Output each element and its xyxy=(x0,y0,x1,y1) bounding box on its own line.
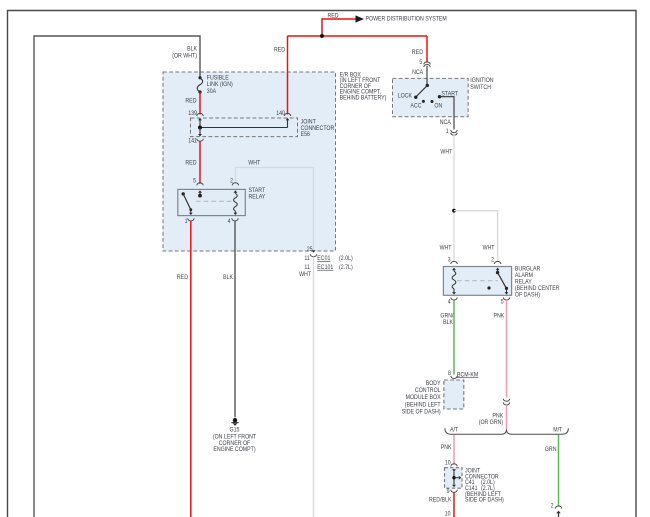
svg-text:RED/BLK: RED/BLK xyxy=(429,497,452,504)
start relay pin 4 xyxy=(228,218,239,225)
wire labels WHT at relay pins xyxy=(440,244,495,251)
joint connector C41 pin 10 xyxy=(445,460,457,467)
wire PNK burglar relay pin 5 down xyxy=(494,300,507,398)
wire RED bus drop to ignition switch pin 5 xyxy=(412,36,427,63)
joint connector C41 pin 9 xyxy=(447,488,458,495)
svg-text:ACC: ACC xyxy=(410,103,421,110)
svg-text:RED: RED xyxy=(274,47,285,54)
svg-text:1: 1 xyxy=(185,218,188,225)
svg-text:11: 11 xyxy=(304,264,310,271)
svg-text:OF DASH): OF DASH) xyxy=(515,291,540,298)
wire WHT branch to burglar alarm relay pin 2 xyxy=(454,211,498,263)
svg-text:30A: 30A xyxy=(207,88,217,95)
svg-text:(OR GRN): (OR GRN) xyxy=(479,419,504,426)
svg-text:(OR WHT): (OR WHT) xyxy=(172,52,197,59)
wire RED start relay pin 1 down to page bottom xyxy=(177,221,191,517)
svg-text:25: 25 xyxy=(307,246,313,253)
start relay mechanical dashed link xyxy=(196,200,233,202)
svg-text:WHT: WHT xyxy=(483,244,495,251)
svg-text:(BEHIND LEFT: (BEHIND LEFT xyxy=(405,401,441,408)
svg-text:PNK: PNK xyxy=(494,312,505,319)
brace split A/T and M/T xyxy=(445,426,568,434)
ignition switch pin 1 connector xyxy=(440,117,458,136)
ignition switch contacts and lever xyxy=(398,66,458,117)
wire BLK (OR WHT) battery feed: fusible link up, across, down left side xyxy=(34,36,200,517)
svg-text:BLK: BLK xyxy=(443,319,453,326)
svg-text:EC01: EC01 xyxy=(317,255,330,262)
burglar relay pin 4 xyxy=(448,297,457,305)
joint connector internal bus wire xyxy=(198,126,288,130)
svg-text:5: 5 xyxy=(501,299,504,306)
start relay coil xyxy=(234,192,238,215)
svg-text:5: 5 xyxy=(419,59,422,66)
wire PNK A/T branch xyxy=(441,435,454,465)
start relay pin 1 xyxy=(185,218,195,225)
wire GRN M/T branch xyxy=(545,435,559,507)
svg-text:1: 1 xyxy=(446,128,449,135)
burglar relay pin 2 xyxy=(491,256,501,274)
svg-text:NCA: NCA xyxy=(440,119,452,126)
svg-text:2: 2 xyxy=(491,256,494,263)
wire RED fusible link to pin 139 xyxy=(185,92,200,114)
body control module box (dashed) xyxy=(402,380,464,416)
svg-text:RED: RED xyxy=(177,274,188,281)
wire RED bus drop to joint connector pin 140 xyxy=(274,36,288,115)
clutch start switch stub arrow (cut at page edge) xyxy=(556,511,561,517)
wire WHT start relay pin 2 to E/R box pin 25 xyxy=(235,160,313,250)
svg-text:9: 9 xyxy=(447,488,450,495)
burglar relay mechanical dashed link xyxy=(457,280,498,282)
burglar relay pin 3 xyxy=(448,256,457,270)
svg-text:ENGINE COMPT): ENGINE COMPT) xyxy=(213,446,255,453)
svg-text:2: 2 xyxy=(551,503,554,510)
in-line connector on PNK wire xyxy=(503,399,509,405)
burglar relay pin 5 xyxy=(501,297,510,305)
svg-text:WHT: WHT xyxy=(440,244,452,251)
svg-text:140: 140 xyxy=(276,110,285,117)
start relay pin 5 xyxy=(193,178,203,198)
svg-text:M/T: M/T xyxy=(553,426,562,433)
svg-text:MODULE BOX: MODULE BOX xyxy=(406,394,442,401)
svg-text:A/T: A/T xyxy=(450,426,458,433)
start relay box xyxy=(178,187,266,216)
svg-text:WHT: WHT xyxy=(299,271,311,278)
start relay pin 2 xyxy=(230,178,239,193)
svg-text:POWER DISTRIBUTION SYSTEM: POWER DISTRIBUTION SYSTEM xyxy=(366,15,447,22)
E/R box pin 25 exit xyxy=(307,246,317,257)
arrow to POWER DISTRIBUTION SYSTEM xyxy=(356,15,447,22)
svg-text:WHT: WHT xyxy=(248,160,260,167)
svg-text:SIDE OF DASH): SIDE OF DASH) xyxy=(402,409,441,416)
BCM pin 8 connector, node BCM-KM xyxy=(448,370,478,378)
E/R box (engine compartment relay box, dashed) xyxy=(163,71,386,251)
svg-text:10: 10 xyxy=(445,511,451,517)
svg-text:(2.0L): (2.0L) xyxy=(339,255,353,262)
svg-text:GRN: GRN xyxy=(545,446,557,453)
svg-text:10: 10 xyxy=(445,460,451,467)
ground G15 xyxy=(213,418,256,453)
burglar alarm relay box xyxy=(443,265,559,298)
svg-text:SIDE OF DASH): SIDE OF DASH) xyxy=(465,497,504,504)
ignition switch pin 5 connector xyxy=(412,59,430,76)
svg-text:WHT: WHT xyxy=(440,148,452,155)
joint connector C41 dashed box xyxy=(445,468,504,504)
svg-text:3: 3 xyxy=(448,256,451,263)
pin 139 xyxy=(188,110,203,127)
svg-text:5: 5 xyxy=(193,178,196,185)
svg-text:RED: RED xyxy=(185,97,196,104)
svg-text:BODY: BODY xyxy=(426,380,441,387)
wire RED/BLK below C41 to page bottom xyxy=(429,492,454,517)
svg-text:PNK: PNK xyxy=(441,444,452,451)
wire WHT pin 25 down to page bottom xyxy=(299,257,313,517)
svg-text:RELAY: RELAY xyxy=(249,194,266,201)
svg-text:141: 141 xyxy=(188,138,197,145)
svg-text:LOCK: LOCK xyxy=(398,92,413,99)
ignition switch box (dashed) xyxy=(393,77,494,117)
junction node on WHT wire xyxy=(452,209,456,213)
svg-text:RED: RED xyxy=(185,160,196,167)
wire PNK (OR GRN) to A/T-M/T brace xyxy=(479,405,507,430)
joint connector C41 internals xyxy=(452,469,461,487)
fusible link (IGN) 30A xyxy=(197,74,233,95)
svg-text:BEHIND BATTERY): BEHIND BATTERY) xyxy=(340,95,387,102)
burglar relay switch lever xyxy=(487,273,508,295)
wire WHT ignition pin 1 down to burglar alarm relay pin 3 xyxy=(440,134,454,263)
svg-text:139: 139 xyxy=(188,110,197,117)
M/T branch pin 2 connector xyxy=(551,503,562,510)
wire BLK start relay pin 4 down to ground G15 xyxy=(223,221,235,417)
svg-text:BCM-KM: BCM-KM xyxy=(457,371,478,378)
svg-text:(2.7L): (2.7L) xyxy=(339,264,353,271)
svg-text:BLK: BLK xyxy=(223,274,233,281)
svg-text:4: 4 xyxy=(448,299,451,306)
svg-text:CONTROL: CONTROL xyxy=(415,387,441,394)
svg-text:RED: RED xyxy=(327,13,338,20)
svg-text:SWITCH: SWITCH xyxy=(470,84,491,91)
junction node on red bus xyxy=(320,34,324,38)
svg-text:ON: ON xyxy=(434,103,442,110)
svg-text:E56: E56 xyxy=(301,131,311,138)
burglar relay coil xyxy=(452,270,456,295)
svg-text:EC101: EC101 xyxy=(317,264,333,271)
pin 141 xyxy=(188,128,203,145)
svg-text:4: 4 xyxy=(228,218,231,225)
svg-text:11: 11 xyxy=(304,255,310,262)
svg-text:RED: RED xyxy=(412,49,423,56)
svg-text:IGNITION: IGNITION xyxy=(470,77,494,84)
node references EC01 / EC101 xyxy=(304,255,352,271)
wire RED top bus xyxy=(288,13,428,37)
wire RED pin 141 to start relay pin 5 xyxy=(185,142,200,184)
start relay switch lever xyxy=(182,192,193,215)
joint connector E56 dashed box xyxy=(191,118,335,138)
pin 140 xyxy=(276,110,291,127)
svg-text:NCA: NCA xyxy=(412,69,424,76)
wire GRN/BLK burglar relay pin 4 to BCM pin 8 xyxy=(440,300,454,375)
